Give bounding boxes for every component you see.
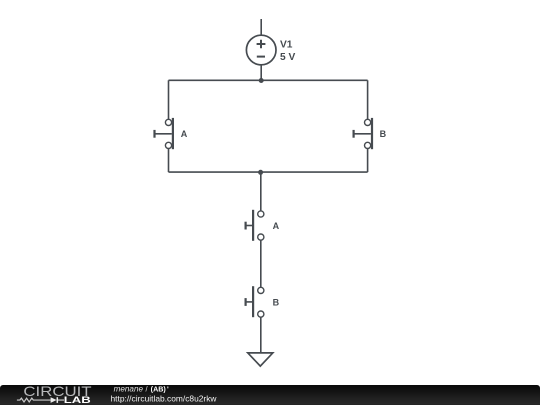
wire right branch lower	[367, 149, 369, 173]
source bubble	[165, 119, 171, 125]
svg-text:menane: menane	[114, 385, 144, 394]
voltage source V1	[246, 35, 295, 65]
transistor A (PMOS, left pull-up)	[155, 118, 188, 149]
gate terminal tick	[245, 222, 247, 230]
V1 minus terminal mark	[257, 56, 265, 58]
gate lead	[354, 133, 371, 135]
ground	[248, 353, 273, 366]
gate lead	[155, 133, 172, 135]
footer title line	[114, 385, 169, 394]
footer bar	[0, 385, 540, 405]
wire V1 top stub	[260, 19, 262, 36]
transistor A (NMOS, series upper)	[246, 210, 280, 241]
node output junction	[258, 170, 263, 175]
transistor B (NMOS, series lower)	[246, 286, 280, 317]
gate terminal tick	[245, 298, 247, 306]
gate terminal tick	[153, 130, 155, 138]
gate lead	[247, 225, 253, 227]
wire between series transistors	[260, 240, 262, 287]
wire left branch upper	[168, 80, 170, 119]
V1 plus terminal mark	[257, 40, 266, 49]
drain bubble	[165, 142, 171, 148]
wire bottom rail	[169, 171, 368, 173]
svg-text:LAB: LAB	[64, 395, 91, 405]
gate lead	[247, 301, 253, 303]
wire top rail	[169, 79, 368, 81]
source bubble	[365, 119, 371, 125]
channel bar	[252, 286, 254, 317]
wire V1 to top rail	[260, 65, 262, 81]
channel bar	[172, 118, 174, 149]
channel bar	[371, 118, 373, 149]
wire left branch lower	[168, 149, 170, 173]
svg-text:(AB): (AB)	[151, 386, 167, 394]
drain bubble	[365, 142, 371, 148]
source bubble	[258, 234, 264, 240]
wire output node down	[260, 172, 262, 211]
drain bubble	[258, 211, 264, 217]
logo diode	[51, 397, 57, 403]
logo resistor zigzag	[17, 398, 51, 402]
drain bubble	[258, 287, 264, 293]
gate terminal tick	[353, 130, 355, 138]
channel bar	[252, 210, 254, 241]
svg-text:http://circuitlab.com/c8u2rkw: http://circuitlab.com/c8u2rkw	[111, 394, 218, 404]
node junction below V1	[259, 78, 264, 83]
svg-text:': '	[167, 386, 169, 394]
wire to ground	[260, 317, 262, 353]
svg-text:/: /	[146, 385, 149, 394]
CircuitLab logo	[17, 384, 92, 405]
wire right branch upper	[367, 80, 369, 119]
source bubble	[258, 311, 264, 317]
transistor B (PMOS, right pull-up)	[354, 118, 387, 149]
